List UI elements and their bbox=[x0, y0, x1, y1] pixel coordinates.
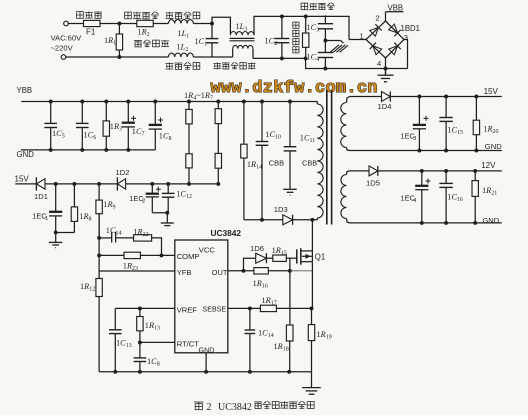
svg-text:3: 3 bbox=[413, 136, 416, 142]
capacitor 1C13 bbox=[109, 329, 132, 372]
resistor 1R19 bbox=[308, 308, 331, 371]
label 15V aux bbox=[15, 174, 30, 183]
capacitor 1C17 sense filter bbox=[245, 308, 274, 371]
bridge diode lower-left bbox=[370, 43, 382, 55]
svg-text:UC3842: UC3842 bbox=[211, 228, 242, 238]
diode 1D6 and resistor 1R15 branch bbox=[244, 244, 297, 271]
svg-text:www.dzkfw.com.cn: www.dzkfw.com.cn bbox=[211, 79, 378, 98]
terminal bottom input bbox=[61, 55, 66, 60]
wire 15V aux left bbox=[15, 183, 36, 185]
bottom rail to bridge bbox=[306, 58, 408, 70]
svg-text:2: 2 bbox=[207, 402, 212, 413]
label 15V out bbox=[484, 87, 499, 96]
svg-text:COMP: COMP bbox=[177, 252, 200, 261]
svg-text:VREF: VREF bbox=[177, 306, 198, 315]
capacitor 1C9 timing bbox=[134, 342, 160, 371]
svg-text:SEBSE: SEBSE bbox=[203, 305, 227, 313]
resistor 1R12 bbox=[80, 214, 102, 372]
svg-text:1BD1: 1BD1 bbox=[401, 24, 421, 33]
diode 1D1 bbox=[34, 177, 48, 201]
svg-text:1D1: 1D1 bbox=[34, 192, 48, 201]
capacitor 1EC2 bbox=[129, 184, 161, 213]
capacitor 1C3 bbox=[307, 15, 334, 40]
diode 1D4 bbox=[350, 92, 502, 112]
svg-text:YFB: YFB bbox=[177, 268, 192, 277]
wire YBB rail bbox=[21, 101, 317, 103]
svg-text:4: 4 bbox=[377, 59, 381, 68]
label 1R4-1R7 bbox=[184, 91, 213, 102]
capacitor 1C2 bbox=[265, 14, 290, 60]
svg-text:15V: 15V bbox=[484, 87, 499, 96]
wire drain to transformer bbox=[311, 220, 313, 251]
terminal top input bbox=[64, 21, 69, 26]
label GND left bbox=[17, 150, 35, 159]
ground under 1C11 bbox=[283, 188, 297, 195]
wire GND pin stub bbox=[205, 353, 207, 372]
label chamo diangan top bbox=[166, 12, 200, 19]
choke core lines bbox=[230, 38, 255, 40]
fuse F1 bbox=[68, 20, 100, 36]
wire choke bottom rail bbox=[253, 57, 306, 59]
wire cap bottoms and ground bbox=[152, 211, 174, 228]
capacitor 1C1 bbox=[195, 22, 219, 57]
svg-text:1D3: 1D3 bbox=[274, 205, 288, 214]
resistor 1R9 bbox=[96, 184, 116, 237]
capacitor 1EC3 bbox=[401, 95, 429, 153]
svg-text:~220V: ~220V bbox=[51, 44, 74, 53]
svg-text:UC3842: UC3842 bbox=[218, 402, 252, 413]
wire EC1-R8 bottoms and ground bbox=[49, 231, 74, 248]
svg-text:15V: 15V bbox=[15, 174, 30, 183]
svg-text:2: 2 bbox=[376, 14, 380, 23]
op-amp U1 UC3842 box bbox=[175, 228, 242, 353]
label baoxiansi fuse bbox=[77, 11, 102, 18]
capacitor 1C11 CBB bbox=[284, 100, 318, 189]
diode 1D2 bbox=[116, 168, 130, 191]
transformer secondary 2 bbox=[341, 171, 350, 223]
svg-text:VCC: VCC bbox=[199, 246, 216, 255]
svg-text:2: 2 bbox=[142, 199, 145, 205]
svg-text:1D6: 1D6 bbox=[250, 244, 264, 253]
wire choke top to bridge bbox=[254, 16, 366, 40]
label GND 15V bbox=[485, 142, 502, 151]
wire COMP line with resistor 1R23 bbox=[97, 252, 175, 272]
bridge diode lower-right bbox=[388, 43, 400, 55]
bridge pin numbers bbox=[360, 14, 409, 69]
svg-text:VBB: VBB bbox=[388, 3, 404, 12]
wire 1D2 to right bbox=[126, 182, 221, 186]
wire 15V gnd rail bbox=[350, 150, 502, 152]
svg-text:CBB: CBB bbox=[302, 159, 317, 168]
svg-text:1D2: 1D2 bbox=[116, 168, 130, 177]
svg-text:F1: F1 bbox=[86, 28, 96, 37]
bridge pin4 wire and ground bbox=[378, 58, 394, 82]
svg-text:GND: GND bbox=[17, 150, 35, 159]
wire bottom ground rail bbox=[99, 370, 311, 374]
UC3842 pin labels bbox=[177, 246, 228, 355]
wire bottom input bbox=[66, 55, 169, 59]
capacitor 1C10 CBB bbox=[256, 100, 284, 220]
capacitor 1C15 bbox=[439, 95, 463, 153]
capacitor 1C4 bbox=[307, 41, 334, 69]
wire fuse to R2 bbox=[100, 22, 137, 26]
label taoci dianrong ceramic caps bbox=[301, 3, 335, 10]
label 12V out bbox=[481, 161, 496, 170]
resistor chain 1R6 1R7 bbox=[215, 100, 221, 184]
transformer secondary 1 bbox=[341, 97, 350, 151]
svg-text:CBB: CBB bbox=[269, 159, 284, 168]
bridge pin3 wire bbox=[404, 40, 408, 69]
wire YFB line bbox=[99, 270, 175, 272]
capacitor 1C14 and resistor 1R22 branch bbox=[97, 226, 161, 255]
resistor 1R8 bbox=[71, 184, 91, 233]
bleeder resistor with rotated label bbox=[293, 14, 309, 60]
label remin rezistor thermistor bbox=[125, 12, 159, 19]
resistor 1R21 bbox=[472, 169, 497, 225]
VBB node and wire bbox=[386, 3, 404, 21]
wire L1 to C1 node bbox=[193, 23, 212, 25]
inductor 1L2 bbox=[168, 43, 193, 58]
wire GND rail left bbox=[21, 149, 155, 151]
wire R2 to L1 bbox=[153, 23, 168, 25]
svg-text:YBB: YBB bbox=[17, 86, 33, 95]
svg-text:1: 1 bbox=[45, 216, 48, 222]
transformer core bbox=[327, 90, 332, 225]
svg-text:GND: GND bbox=[482, 216, 499, 225]
diode 1D3 and primary return wire bbox=[244, 205, 317, 225]
resistor 1R13 bbox=[137, 308, 160, 344]
node C3-C4 junction bbox=[323, 39, 327, 43]
svg-text:VAC:60V: VAC:60V bbox=[51, 34, 83, 43]
resistor 1R1 varistor bbox=[104, 24, 123, 58]
label GND 12V bbox=[482, 216, 499, 225]
svg-text:1: 1 bbox=[360, 32, 364, 41]
resistor 1R20 bbox=[473, 95, 498, 153]
wire jog to choke top bbox=[212, 17, 230, 34]
choke lower winding bbox=[233, 45, 253, 58]
label gongmo eliuquan choke bbox=[214, 62, 256, 69]
capacitor 1C5 bbox=[44, 100, 64, 152]
ground main bbox=[302, 372, 321, 394]
caption figure 2 UC3842 bbox=[194, 401, 314, 413]
resistor 1R3 bbox=[103, 100, 122, 152]
bridge diode upper-right bbox=[388, 24, 400, 36]
svg-text:4: 4 bbox=[413, 198, 416, 204]
wire VREF line bbox=[115, 306, 175, 329]
label yamin dianzu varistor bbox=[134, 40, 169, 47]
svg-text:1D4: 1D4 bbox=[378, 102, 392, 111]
svg-text:GND: GND bbox=[485, 142, 502, 151]
capacitor 1EC1 bbox=[32, 184, 62, 233]
svg-text:12V: 12V bbox=[481, 161, 496, 170]
bridge rectifier 1BD1 diamond bbox=[366, 21, 404, 58]
wire source down bbox=[311, 262, 313, 309]
transistor Q1 mosfet bbox=[297, 248, 325, 265]
svg-text:OUT: OUT bbox=[212, 268, 228, 277]
inductor 1L1 bbox=[168, 20, 193, 40]
svg-text:1D5: 1D5 bbox=[366, 179, 380, 188]
label YBB bbox=[17, 86, 33, 95]
resistor chain 1R4 1R5 bbox=[186, 100, 192, 184]
chassis earth symbol bbox=[325, 41, 348, 53]
resistor 1R14 bbox=[241, 100, 262, 220]
bridge diode upper-left bbox=[369, 24, 381, 36]
wire RT/CT line bbox=[140, 341, 175, 343]
capacitor 1C16 bbox=[439, 169, 463, 225]
capacitor 1C8 electrolytic bbox=[149, 100, 172, 150]
wire L2 to choke bbox=[193, 56, 232, 58]
diode 1D5 bbox=[350, 166, 502, 188]
wire OUT line with resistor 1R16 bbox=[228, 268, 313, 290]
wire 12V gnd rail bbox=[350, 222, 502, 224]
capacitor 1C12 bbox=[162, 184, 192, 213]
svg-text:Q1: Q1 bbox=[315, 253, 325, 262]
wire 1D1 to 1D2 bbox=[45, 182, 117, 186]
resistor 1R18 bbox=[274, 271, 294, 372]
capacitor 1C6 bbox=[76, 100, 96, 152]
label VAC 60V-220V bbox=[51, 34, 83, 53]
resistor 1R2 bbox=[137, 20, 153, 38]
capacitor 1EC4 bbox=[401, 169, 431, 225]
svg-text:RT/CT: RT/CT bbox=[177, 340, 200, 349]
label 1BD1 bbox=[401, 24, 421, 33]
common mode choke 1L3 upper winding bbox=[230, 22, 254, 35]
wire SENSE line with resistor 1R17 bbox=[228, 296, 314, 312]
capacitor 1EC7 electrolytic 1C7 bbox=[122, 100, 145, 152]
transformer primary winding bbox=[317, 102, 323, 220]
label chamo diangan bottom bbox=[166, 62, 200, 69]
